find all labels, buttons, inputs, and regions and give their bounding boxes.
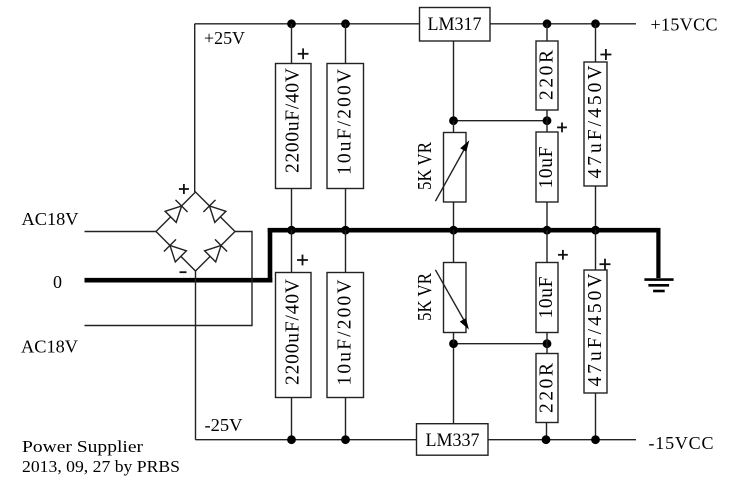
ground rail 0V (thick) [268, 228, 661, 233]
wire: 220R bottom lead to -25V rail [546, 423, 548, 440]
node: +25V rail at 47uF [591, 19, 600, 28]
wire: ground rail to C6 top lead [345, 230, 347, 272]
svg-text:0: 0 [53, 272, 62, 292]
wiper arrow of top 5K VR [435, 140, 469, 201]
wire: 220R bottom to ADJ node [546, 110, 548, 121]
wire: bridge - terminal down to -25V rail [195, 271, 197, 440]
wire: ADJ node to VR top [453, 121, 455, 132]
wire: bridge + terminal to +25V rail [194, 24, 196, 192]
ground symbol [644, 228, 673, 291]
svg-text:LM337: LM337 [426, 431, 480, 451]
polarity + of C8 [600, 259, 611, 270]
node: +25V rail at 10uF/200V [341, 19, 350, 28]
polarity + of C3 [557, 123, 567, 133]
wire: ground rail to C5 top lead [291, 230, 293, 272]
wire: -25V bottom rail left segment [196, 439, 417, 441]
label +15VCC [651, 15, 718, 35]
wire: C2 bottom lead to ground rail [345, 189, 347, 231]
wire: LM317 ADJ pin down [453, 41, 455, 121]
wire: node to 10uF top [546, 121, 548, 132]
node: ground rail at 47uF [591, 226, 600, 235]
thick riser from 0 input to ground rail [268, 228, 273, 283]
svg-text:Power Supplier: Power Supplier [22, 437, 143, 456]
resistor 220R (bottom) [536, 354, 558, 423]
regulator U1 LM317 [420, 8, 491, 42]
node: ground rail at 2200uF [287, 226, 296, 235]
svg-text:5K VR: 5K VR [415, 142, 436, 190]
wire: ground rail to C7 top lead [546, 230, 548, 262]
label 0 [53, 272, 62, 292]
label +25V [204, 28, 245, 48]
wire: bottom ADJ node to R-C junction [454, 343, 548, 345]
node: LM317 ADJ junction [449, 116, 458, 125]
wire: rail to C4 47uF top lead [595, 24, 597, 62]
wire: ground rail to VR bottom top lead [453, 230, 455, 262]
wire: C6 bottom lead to -25V rail [345, 398, 347, 440]
wiper arrow of bottom 5K VR [435, 270, 469, 330]
svg-text:5K VR: 5K VR [415, 273, 436, 321]
node: +25V rail at 2200uF [287, 19, 296, 28]
node: -25V rail at 2200uF [287, 435, 296, 444]
diode D4 (bridge bottom-right) [205, 239, 228, 262]
wire: AC18V top input to bridge left [85, 231, 157, 233]
svg-text:10uF: 10uF [536, 276, 557, 318]
node: bottom 10uF / 220R junction [543, 339, 552, 348]
wire: C1 bottom lead to ground rail [291, 189, 293, 231]
wire: LM337 ADJ pin up [453, 344, 455, 424]
node: 220R bottom / 10uF top junction [543, 116, 552, 125]
capacitor C7 10uF (bottom) [536, 263, 558, 333]
label - (bridge negative terminal) [180, 271, 187, 273]
node: ground rail at 10uF/200V [341, 226, 350, 235]
wire: C3 bottom lead to ground rail [546, 202, 548, 230]
svg-text:-25V: -25V [205, 415, 243, 435]
polarity + of C1 [298, 48, 309, 59]
potentiometer 5K VR (top) [444, 133, 467, 203]
wire: -25V bottom rail right segment [488, 439, 636, 441]
capacitor C4 47uF/450V (top) [584, 62, 607, 186]
label + (bridge positive terminal) [179, 184, 189, 194]
bridge rectifier diamond frame [156, 192, 235, 271]
wire: C8 bottom lead to -25V rail [595, 393, 597, 440]
diode D2 (bridge top-right) [203, 200, 226, 223]
resistor 220R (top) [536, 41, 558, 110]
wire: 0 input (thick) [85, 278, 273, 283]
wire: +25V top rail left segment [195, 23, 420, 25]
wire: rail to C1 top lead [291, 24, 293, 64]
node: +25V rail at 220R [543, 19, 552, 28]
wire: VR bottom lead to ADJ node [453, 333, 455, 344]
node: ground rail at 10uF [543, 226, 552, 235]
wire: C4 bottom lead to ground rail [595, 186, 597, 230]
regulator U2 LM337 [417, 424, 489, 456]
svg-text:2200uF/40V: 2200uF/40V [283, 68, 304, 173]
node: -25V rail at 47uF [591, 435, 600, 444]
title: Power Supplier [22, 437, 143, 456]
wire: rail to 220R top [546, 24, 548, 41]
value label 5K VR (bottom) [415, 273, 436, 321]
node: ground rail at 5K VR [449, 226, 458, 235]
label AC18V (top) [22, 209, 79, 229]
polarity + of C5 [297, 255, 308, 266]
svg-text:2200uF/40V: 2200uF/40V [283, 279, 304, 385]
wire: VR top bottom lead to ground rail [453, 202, 455, 230]
svg-text:+15VCC: +15VCC [651, 15, 718, 35]
node: -25V rail at 220R [542, 435, 551, 444]
capacitor C2 10uF/200V (top) [327, 64, 364, 189]
capacitor C1 2200uF/40V (top) [276, 64, 312, 189]
date: 2013, 09, 27 by PRBS [22, 457, 180, 476]
node: LM337 ADJ junction [449, 339, 458, 348]
svg-text:LM317: LM317 [428, 15, 482, 35]
svg-text:10uF: 10uF [536, 146, 557, 188]
polarity + of C4 [600, 49, 611, 60]
wire: C5 bottom lead to -25V rail [291, 398, 293, 440]
label -15VCC [649, 433, 714, 453]
polarity + of C7 [558, 250, 568, 260]
capacitor C5 2200uF/40V (bottom) [276, 273, 312, 398]
label -25V [205, 415, 243, 435]
potentiometer 5K VR (bottom) [444, 263, 467, 333]
wire: ADJ node to R-C junction [454, 120, 548, 122]
svg-text:-15VCC: -15VCC [649, 433, 714, 453]
svg-text:+25V: +25V [204, 28, 245, 48]
wire: +25V top rail right segment [490, 23, 636, 25]
svg-text:220R: 220R [536, 363, 557, 413]
diode D1 (bridge top-left) [165, 200, 188, 223]
svg-text:AC18V: AC18V [22, 209, 79, 229]
value label 5K VR (top) [415, 142, 436, 190]
wire: ground rail to C8 top lead [595, 230, 597, 270]
capacitor C3 10uF (top) [536, 132, 558, 202]
node: -25V rail at 10uF/200V [341, 435, 350, 444]
svg-text:AC18V: AC18V [21, 337, 78, 357]
capacitor C6 10uF/200V (bottom) [327, 273, 364, 398]
diode D3 (bridge bottom-left) [164, 239, 187, 262]
wire: bridge right to AC18V bottom input [85, 232, 253, 326]
label AC18V (bottom) [21, 337, 78, 357]
capacitor C8 47uF/450V (bottom) [584, 270, 607, 393]
wire: ADJ node to 220R bottom top [546, 344, 548, 354]
svg-text:220R: 220R [536, 50, 557, 100]
svg-text:2013, 09, 27 by PRBS: 2013, 09, 27 by PRBS [22, 457, 180, 476]
wire: rail to C2 top lead [345, 24, 347, 64]
wire: C7 bottom lead to ADJ node [546, 333, 548, 344]
